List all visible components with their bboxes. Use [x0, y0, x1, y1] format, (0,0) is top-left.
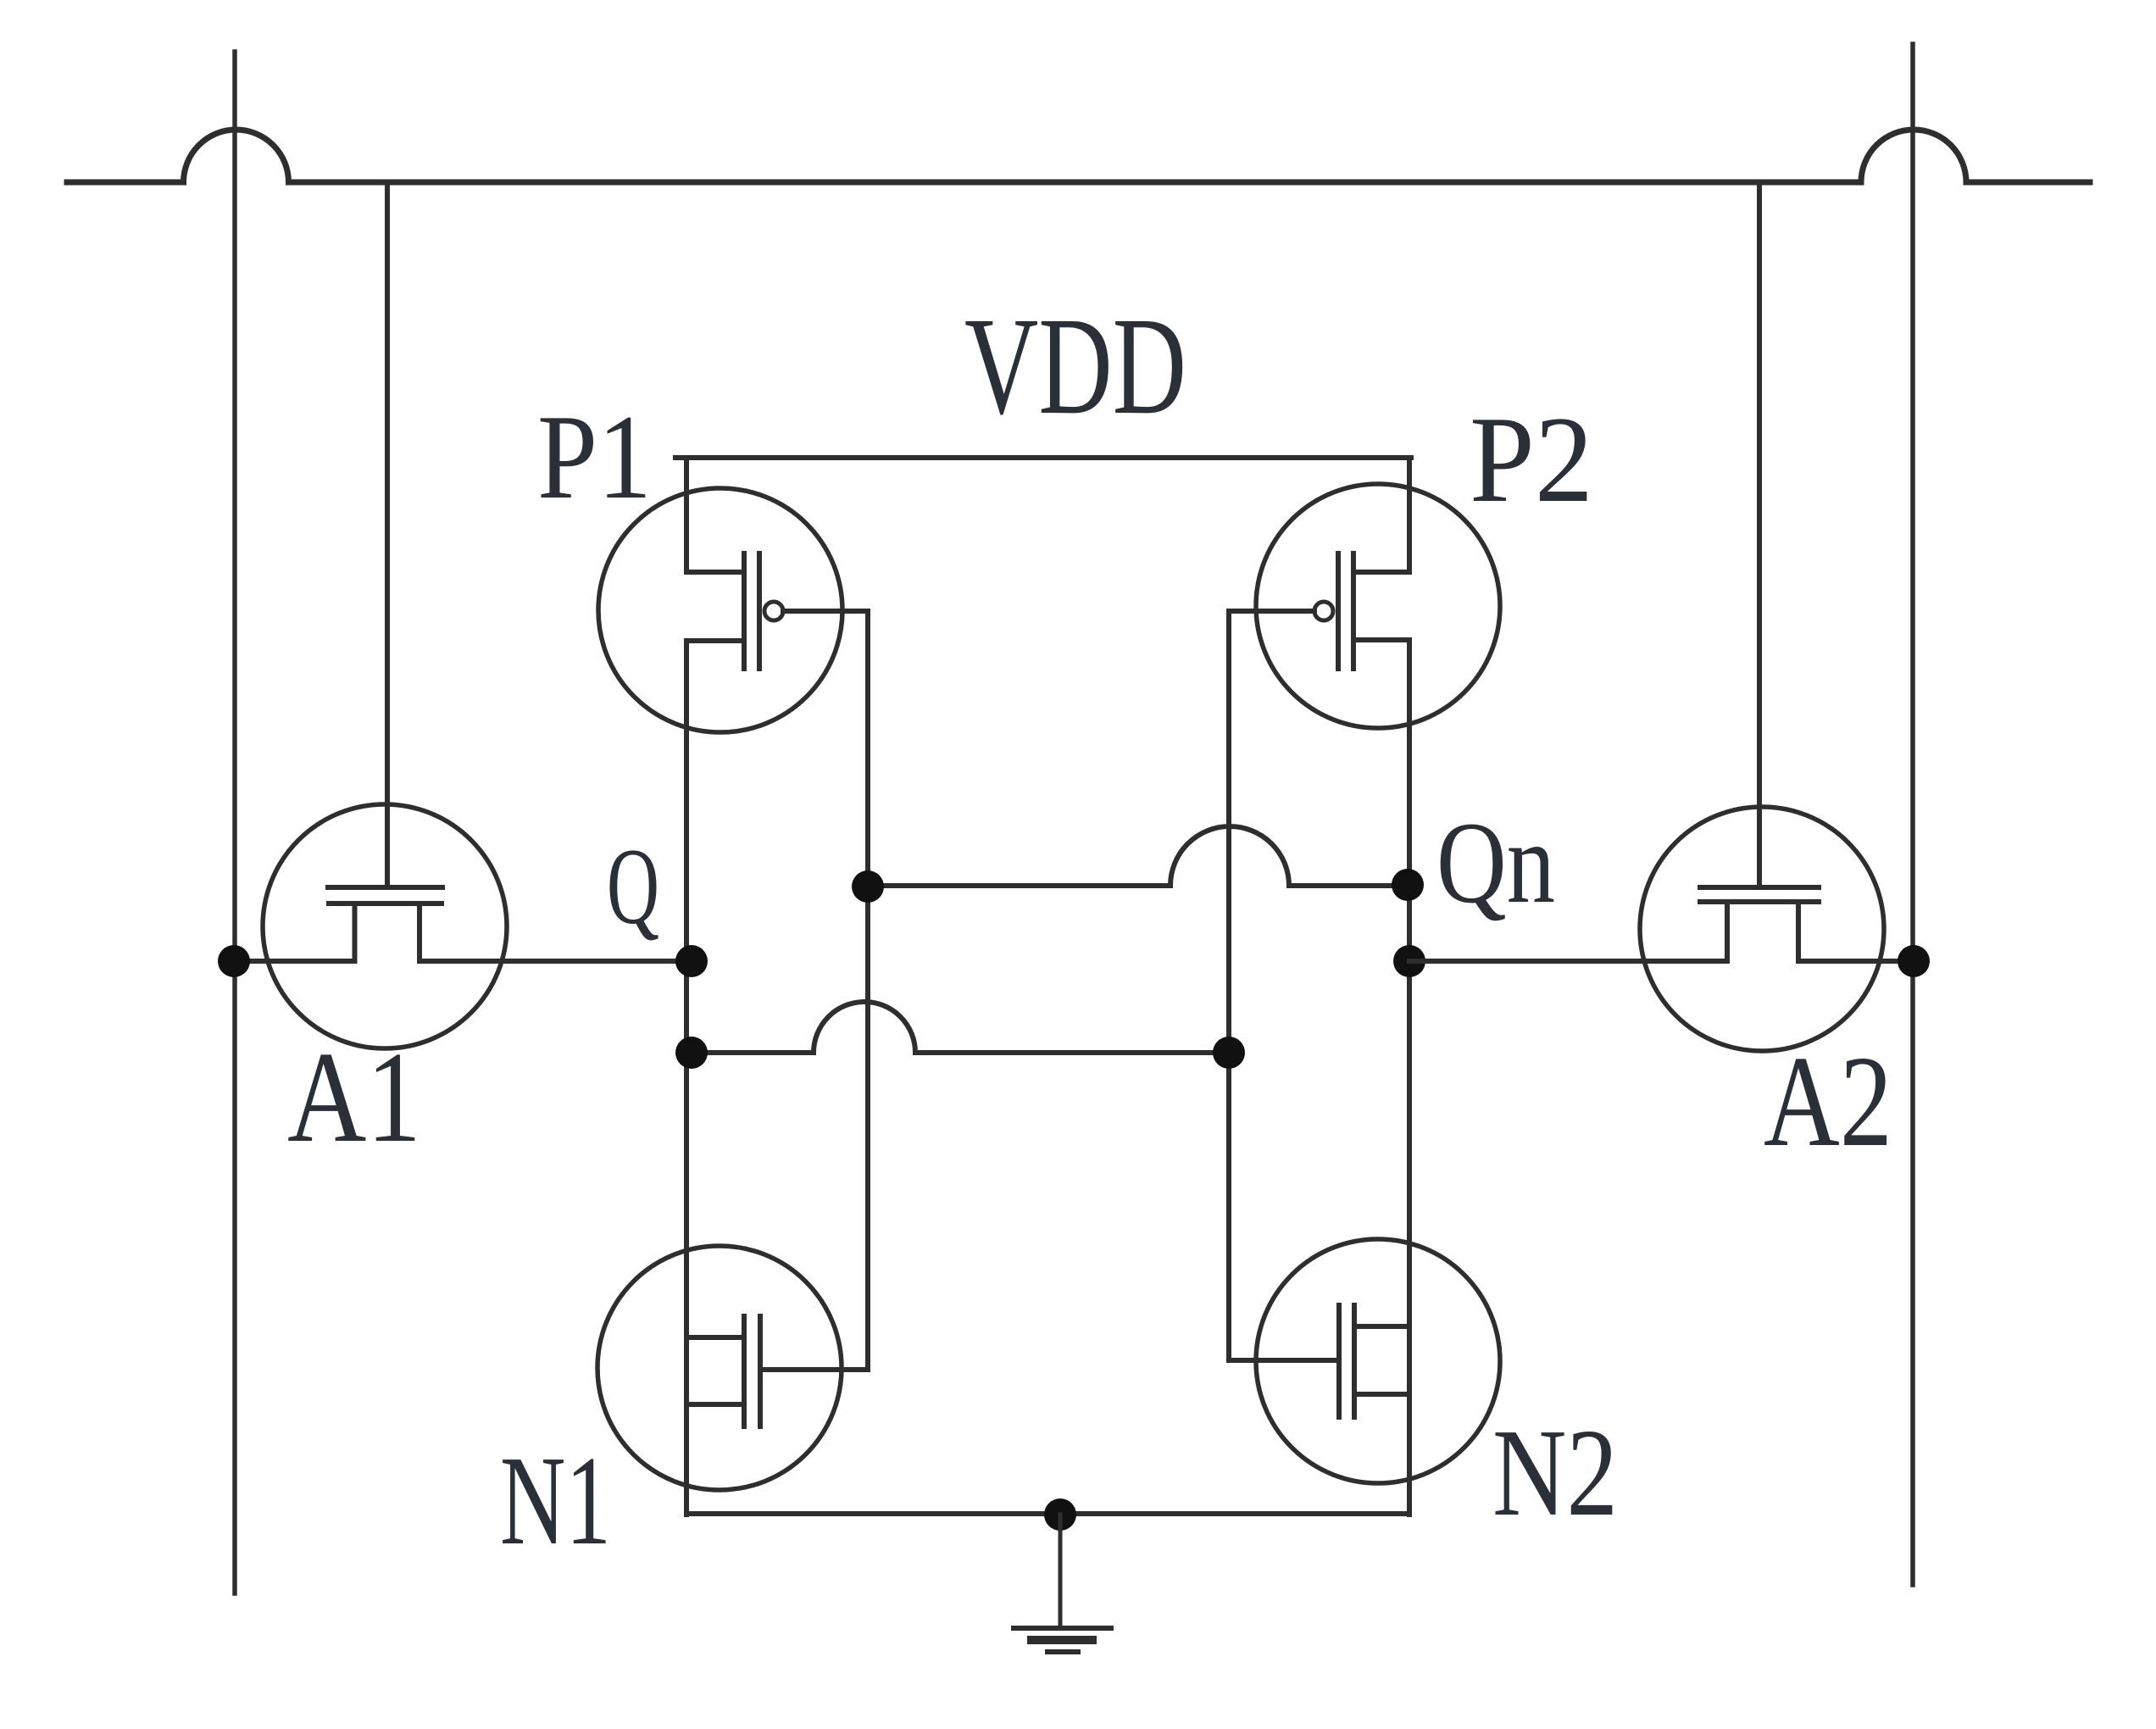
transistor N1 (NMOS)	[597, 1246, 868, 1490]
transistor N2 (NMOS)	[1229, 1239, 1500, 1483]
svg-text:N2: N2	[1492, 1404, 1618, 1543]
wire node Qn column P2 drain to N2 and bottom rail	[1407, 640, 1412, 1515]
junction dot gate column 2	[1213, 1037, 1245, 1069]
svg-text:P1: P1	[537, 390, 652, 524]
wire ground rail	[686, 1511, 1409, 1516]
junction dot Q lower	[675, 1037, 708, 1069]
wire A1 source to left bit line	[235, 959, 355, 964]
svg-text:N1: N1	[500, 1429, 611, 1571]
svg-text:VDD: VDD	[964, 288, 1186, 443]
transistor P2 (PMOS)	[1229, 458, 1500, 728]
junction dot ground tap	[1044, 1498, 1076, 1531]
wire right bit line BLB	[1910, 44, 1915, 1585]
svg-text:A2: A2	[1764, 1030, 1892, 1174]
ground symbol	[1014, 1515, 1111, 1652]
wire VDD rail	[675, 455, 1411, 460]
wire Q to inverter-2 gates with hop	[692, 1002, 1229, 1053]
junction dot gate column 1	[852, 870, 884, 903]
junction dot BL-A1	[218, 945, 250, 977]
transistor P1 (PMOS)	[598, 458, 868, 732]
wire A2 gate column from word line	[1757, 182, 1762, 887]
wire inverter-1 gate column (P1+N1 gates)	[865, 611, 870, 1370]
wire A2 source to right bit line	[1798, 959, 1913, 964]
junction dot BLB-A2	[1898, 945, 1930, 977]
svg-text:P2: P2	[1470, 391, 1593, 528]
wire left bit line BL	[232, 52, 237, 1593]
transistor A1 (access NMOS)	[263, 804, 507, 1048]
wire inverter-2 gate column (P2+N2 gates)	[1226, 611, 1231, 1360]
svg-text:Qn: Qn	[1436, 798, 1555, 927]
junction dot Qn node	[1393, 945, 1425, 977]
junction dot Qn upper	[1392, 869, 1424, 901]
wire Qn to A2	[1409, 959, 1727, 964]
svg-text:Q: Q	[607, 826, 659, 947]
wire A1 gate column from word line	[385, 182, 390, 887]
wire A1 drain to node Q	[420, 959, 692, 964]
junction dot Q node	[675, 945, 708, 977]
wire Qn to inverter-1 gates with hop	[868, 826, 1409, 886]
svg-text:A1: A1	[287, 1026, 421, 1170]
transistor A2 (access NMOS)	[1640, 807, 1884, 1051]
wire node Q column P1 drain to N1 and bottom rail	[684, 641, 689, 1515]
wire word line WL with hops over bit lines	[67, 130, 2090, 182]
